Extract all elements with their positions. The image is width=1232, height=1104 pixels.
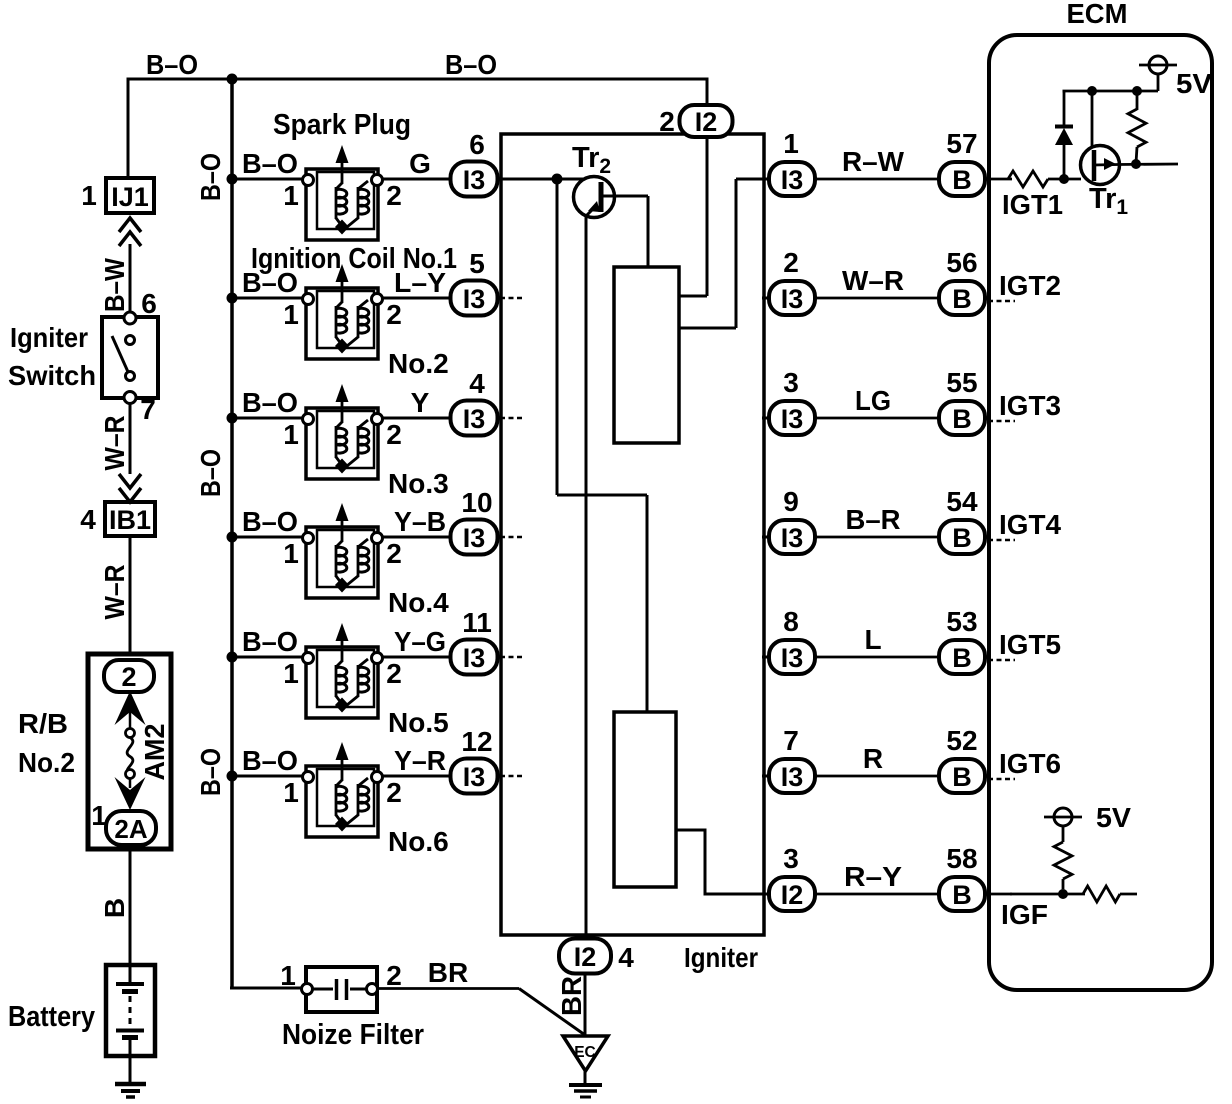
wire W&#8211;R to ECM <box>815 297 940 300</box>
wire R&#8211;Y to ECM <box>815 893 940 896</box>
wire 5V rail top <box>1063 91 1159 93</box>
svg-text:1: 1 <box>283 538 299 569</box>
svg-text:2: 2 <box>386 419 402 450</box>
wire stub igniter edge row IGT1 <box>762 178 772 181</box>
label W-R lower <box>99 565 130 620</box>
svg-text:I3: I3 <box>463 284 486 314</box>
wire block 2 to igniter pin 3 I2 <box>676 830 768 894</box>
label pin 2 coil 1 <box>386 180 402 211</box>
label B-O coil 5 <box>242 626 298 657</box>
connector I3 coil 5 <box>451 640 498 675</box>
label B-O bus lower <box>195 748 226 796</box>
label IGT1 <box>1002 189 1063 220</box>
junction bus top <box>227 74 238 85</box>
svg-text:I3: I3 <box>781 284 804 314</box>
svg-text:I3: I3 <box>463 643 486 673</box>
svg-text:6: 6 <box>141 288 157 319</box>
relay block R/B No.2 <box>88 654 171 849</box>
wire B-O bus to coil 4 <box>232 536 304 539</box>
svg-text:IB1: IB1 <box>109 505 151 535</box>
junction Tr1 base node <box>1059 174 1069 184</box>
svg-text:57: 57 <box>946 128 977 159</box>
svg-text:3: 3 <box>783 367 799 398</box>
label pin 1 coil 1 <box>283 180 299 211</box>
svg-text:2: 2 <box>659 106 675 137</box>
wire to igniter pin 2 <box>706 79 709 106</box>
wire igniter pin2 I2 to waveform block 1 <box>679 137 707 296</box>
wire B-O battery feed top horizontal <box>128 78 709 180</box>
label IGT2 <box>999 270 1061 301</box>
label wire color R <box>863 743 883 774</box>
svg-text:4: 4 <box>80 504 96 535</box>
wire Tr1 emitter output <box>1118 163 1178 166</box>
svg-text:11: 11 <box>462 607 492 638</box>
wire B-O bus to coil 2 <box>232 297 304 300</box>
wire R&#8211;W to ECM <box>815 178 940 181</box>
wire B&#8211;R to ECM <box>815 536 940 539</box>
wire L&#8211;Y coil 2 to I3 <box>383 297 452 300</box>
label B-O top middle <box>445 49 497 80</box>
svg-text:B–O: B–O <box>242 626 298 657</box>
junction resistor rail <box>1132 86 1142 96</box>
connector B row IGT3 <box>939 401 985 435</box>
dashed stub IGT6 <box>988 778 1015 781</box>
power 5V bottom <box>1044 808 1082 826</box>
label pin 10 of I3 coil 4 <box>461 487 492 518</box>
svg-text:W–R: W–R <box>99 416 130 471</box>
svg-text:4: 4 <box>469 368 485 399</box>
wire B-O main bus vertical <box>230 79 234 990</box>
svg-text:B–O: B–O <box>242 387 298 418</box>
label wire color LG <box>855 385 891 416</box>
label pin 2 coil 4 <box>386 538 402 569</box>
svg-text:55: 55 <box>946 367 977 398</box>
dashed stub IGT3 <box>988 420 1015 423</box>
fuse AM2 <box>115 691 146 810</box>
svg-text:2: 2 <box>386 538 402 569</box>
label Spark Plug <box>273 109 411 141</box>
connector I3 coil 4 <box>451 520 498 555</box>
svg-text:Battery: Battery <box>8 1001 95 1033</box>
label IGF <box>1001 899 1048 930</box>
label B-O coil 3 <box>242 387 298 418</box>
wire L to ECM <box>815 656 940 659</box>
svg-text:B: B <box>99 898 130 918</box>
junction IGF node <box>1058 889 1068 899</box>
connector IJ1 <box>106 178 154 213</box>
ignition coil No.3 <box>303 384 383 479</box>
label pin 1 coil 3 <box>283 419 299 450</box>
svg-text:54: 54 <box>946 486 978 517</box>
svg-text:1: 1 <box>283 299 299 330</box>
label wire color L <box>864 624 881 655</box>
label pin 4 of I2 bottom <box>618 942 634 973</box>
svg-text:5V: 5V <box>1096 802 1131 833</box>
connector B row IGT2 <box>939 281 985 315</box>
label wire color coil 5 <box>394 626 446 657</box>
svg-text:Y–R: Y–R <box>394 745 446 776</box>
label No.4 <box>388 587 449 618</box>
svg-text:B–W: B–W <box>99 258 130 312</box>
label pin 2 coil 6 <box>386 777 402 808</box>
svg-text:B–O: B–O <box>195 449 226 497</box>
power 5V top <box>1139 56 1177 91</box>
connector I3 coil 1 <box>451 162 498 197</box>
svg-text:I2: I2 <box>695 107 718 137</box>
label IGT6 <box>999 748 1061 779</box>
svg-text:IGT3: IGT3 <box>999 390 1061 421</box>
dashed stub I3 coil 3 <box>500 417 523 420</box>
ECM box <box>989 35 1212 990</box>
svg-text:Ignition Coil No.1: Ignition Coil No.1 <box>251 243 457 275</box>
junction Tr2 base node <box>552 174 563 185</box>
svg-text:10: 10 <box>461 487 492 518</box>
svg-text:W–R: W–R <box>99 565 130 620</box>
svg-text:Igniter: Igniter <box>10 322 88 353</box>
connector IB1 <box>105 502 155 536</box>
connector 2 of R/B <box>104 660 154 692</box>
label B-W <box>99 258 130 312</box>
label IGT4 <box>999 509 1061 540</box>
label B-O bus middle <box>195 449 226 497</box>
svg-text:B–O: B–O <box>146 49 198 80</box>
wire Y coil 3 to I3 <box>383 417 452 420</box>
label B-O coil 1 <box>242 148 298 179</box>
svg-text:52: 52 <box>946 725 977 756</box>
transistor Tr1 <box>1081 146 1120 185</box>
igniter switch <box>102 312 158 404</box>
connector I3 row IGT4 <box>769 520 815 554</box>
svg-text:I3: I3 <box>781 404 804 434</box>
label No.2 <box>388 348 449 379</box>
label pin 1 coil 4 <box>283 538 299 569</box>
resistor IGT1 series <box>1008 171 1048 187</box>
svg-text:1: 1 <box>283 180 299 211</box>
svg-text:Spark Plug: Spark Plug <box>273 109 411 141</box>
label pin 12 of I3 coil 6 <box>461 726 492 757</box>
svg-text:2A: 2A <box>114 814 147 844</box>
connector I2 row IGF <box>769 877 815 911</box>
wire G coil 1 to I3 <box>383 178 452 181</box>
label pin 2 of I3 row IGT2 <box>783 247 799 278</box>
label ECM <box>1067 0 1128 29</box>
wire stub igniter edge row IGT2 <box>762 297 772 300</box>
ignition coil No.1 <box>303 145 383 240</box>
svg-text:I3: I3 <box>463 404 486 434</box>
label pin 7 of I3 row IGT6 <box>783 725 799 756</box>
junction bus coil 5 <box>227 652 238 663</box>
label pin 8 of I3 row IGT5 <box>783 606 799 637</box>
label pin 2 noize filter <box>386 960 402 991</box>
svg-text:Y–G: Y–G <box>394 626 446 657</box>
label Battery <box>8 1001 95 1033</box>
connector I3 row IGT5 <box>769 640 815 674</box>
svg-text:B: B <box>952 880 972 910</box>
svg-text:No.5: No.5 <box>388 707 449 738</box>
label wire color R&#8211;Y <box>844 861 902 892</box>
svg-text:2: 2 <box>386 960 402 991</box>
dashed stub IGT4 <box>988 539 1015 542</box>
label pin 58 of B connector <box>946 843 977 874</box>
svg-text:58: 58 <box>946 843 977 874</box>
svg-text:G: G <box>409 148 431 179</box>
wire B-O bus to coil 6 <box>232 775 304 778</box>
svg-text:B: B <box>952 762 972 792</box>
label wire color coil 6 <box>394 745 446 776</box>
wire stub igniter edge row IGT6 <box>762 775 772 778</box>
svg-text:B–O: B–O <box>195 748 226 796</box>
label pin 53 of B connector <box>946 606 977 637</box>
resistor IGF pullup <box>1062 879 1065 889</box>
label pin 4 of IB1 <box>80 504 96 535</box>
svg-text:4: 4 <box>618 942 634 973</box>
svg-text:2: 2 <box>386 777 402 808</box>
svg-text:12: 12 <box>461 726 492 757</box>
connector I2 igniter bottom <box>559 939 611 974</box>
svg-text:3: 3 <box>783 843 799 874</box>
svg-text:LG: LG <box>855 385 891 416</box>
svg-text:2: 2 <box>783 247 799 278</box>
label B <box>99 898 130 918</box>
svg-text:1: 1 <box>283 419 299 450</box>
wire igniter pin1 I3 to waveform block 1 right <box>679 179 770 328</box>
wire B-W igniter switch to IJ1 <box>129 244 132 312</box>
svg-text:I3: I3 <box>781 762 804 792</box>
wire W-R IB1 to R/B No.2 <box>129 536 132 656</box>
junction bus coil 6 <box>227 771 238 782</box>
label pin 2 coil 3 <box>386 419 402 450</box>
label 5V bottom <box>1096 802 1131 833</box>
svg-text:I3: I3 <box>463 165 486 195</box>
label B-O coil 4 <box>242 506 298 537</box>
svg-text:IGF: IGF <box>1001 899 1048 930</box>
svg-text:IGT1: IGT1 <box>1002 189 1063 220</box>
svg-text:B–O: B–O <box>195 153 226 201</box>
label B-O top left <box>146 49 198 80</box>
label IGT5 <box>999 629 1061 660</box>
label wire color coil 2 <box>394 267 446 298</box>
wire B-O bus to noize filter <box>230 987 302 990</box>
connector B row IGF <box>939 877 985 911</box>
igniter box <box>501 134 764 935</box>
ground EC <box>563 1036 608 1097</box>
label Tr2 <box>572 142 611 178</box>
svg-text:2: 2 <box>386 658 402 689</box>
waveform block 2 <box>614 712 676 887</box>
label pin 6 of I3 coil 1 <box>469 129 485 160</box>
ignition coil No.4 <box>303 503 383 598</box>
label B-O coil 2 <box>242 267 298 298</box>
label pin 1 of I3 row IGT1 <box>783 128 799 159</box>
svg-text:Igniter: Igniter <box>684 942 758 973</box>
label No.3 <box>388 468 449 499</box>
svg-text:5V: 5V <box>1176 68 1212 99</box>
dashed stub I3 coil 4 <box>500 536 523 539</box>
wire Tr2 emitter to igniter pin 4 <box>585 214 588 938</box>
svg-text:B–R: B–R <box>846 504 901 535</box>
wire Tr2 collector to block 1 <box>647 196 650 268</box>
label pin 2 of I2 top <box>659 106 675 137</box>
svg-text:1: 1 <box>283 658 299 689</box>
label Ignition Coil No.1 <box>251 243 457 275</box>
connector I3 coil 3 <box>451 401 498 436</box>
wire Y&#8211;R coil 6 to I3 <box>383 775 452 778</box>
svg-text:B–O: B–O <box>242 745 298 776</box>
svg-text:IGT2: IGT2 <box>999 270 1061 301</box>
svg-text:1: 1 <box>283 777 299 808</box>
label pin 52 of B connector <box>946 725 977 756</box>
svg-text:IGT5: IGT5 <box>999 629 1061 660</box>
wire B-O bus to coil 3 <box>232 417 304 420</box>
svg-text:I3: I3 <box>463 762 486 792</box>
svg-text:7: 7 <box>783 725 799 756</box>
svg-text:R/B: R/B <box>18 708 68 739</box>
svg-text:No.4: No.4 <box>388 587 449 618</box>
connector B row IGT1 <box>939 162 985 196</box>
dashed stub I3 coil 6 <box>500 775 523 778</box>
label wire color coil 4 <box>394 506 446 537</box>
svg-text:Noize Filter: Noize Filter <box>282 1019 424 1051</box>
svg-text:BR: BR <box>428 957 468 988</box>
junction Tr1 collector rail <box>1087 86 1097 96</box>
svg-text:ECM: ECM <box>1067 0 1128 29</box>
svg-text:5: 5 <box>469 248 485 279</box>
svg-text:Y–B: Y–B <box>394 506 446 537</box>
resistor IGF series <box>1083 886 1120 902</box>
label IGT3 <box>999 390 1061 421</box>
label W-R upper <box>99 416 130 471</box>
label pin 57 of B connector <box>946 128 977 159</box>
label B-O coil 6 <box>242 745 298 776</box>
svg-text:1: 1 <box>280 960 296 991</box>
label wire color coil 3 <box>411 387 430 418</box>
label pin 2 coil 5 <box>386 658 402 689</box>
svg-text:56: 56 <box>946 247 977 278</box>
junction bus coil 4 <box>227 532 238 543</box>
wire base node down to block 2 <box>557 184 647 712</box>
svg-text:B–O: B–O <box>445 49 497 80</box>
wire igniter pin 4 to ground <box>584 938 587 1037</box>
label pin 3 of I2 row IGF <box>783 843 799 874</box>
connector I3 row IGT2 <box>769 281 815 315</box>
wire stub igniter edge row IGT4 <box>762 536 772 539</box>
dashed stub I3 coil 2 <box>500 297 523 300</box>
svg-text:No.2: No.2 <box>388 348 449 379</box>
dashed stub I3 coil 5 <box>500 656 523 659</box>
svg-text:53: 53 <box>946 606 977 637</box>
svg-text:1: 1 <box>81 180 97 211</box>
label wire color R&#8211;W <box>842 146 905 177</box>
dashed stub IGT2 <box>988 300 1015 303</box>
svg-text:AM2: AM2 <box>139 724 170 781</box>
wire R to ECM <box>815 775 940 778</box>
label No.5 <box>388 707 449 738</box>
label pin 56 of B connector <box>946 247 977 278</box>
wire IGF into ECM <box>984 893 1012 896</box>
svg-text:9: 9 <box>783 486 799 517</box>
arrow chevrons up to IJ1 <box>119 218 141 246</box>
wire stub igniter edge row IGT5 <box>762 656 772 659</box>
wire W-R igniter switch to IB1 <box>129 403 132 474</box>
svg-text:Y: Y <box>411 387 430 418</box>
svg-text:B: B <box>952 643 972 673</box>
svg-text:I2: I2 <box>574 942 597 972</box>
svg-text:2: 2 <box>121 662 136 692</box>
label pin 1 of IJ1 <box>81 180 97 211</box>
svg-text:IGT6: IGT6 <box>999 748 1061 779</box>
label pin 1 coil 5 <box>283 658 299 689</box>
label No.6 <box>388 826 449 857</box>
label pin 6 of igniter switch <box>141 288 157 319</box>
label pin 4 of I3 coil 3 <box>469 368 485 399</box>
dashed stub IGT5 <box>988 659 1015 662</box>
label pin 9 of I3 row IGT4 <box>783 486 799 517</box>
svg-text:B: B <box>952 523 972 553</box>
svg-text:No.6: No.6 <box>388 826 449 857</box>
connector I2 igniter top <box>680 105 733 137</box>
wire stub igniter edge row IGF <box>762 893 772 896</box>
svg-text:I3: I3 <box>781 523 804 553</box>
svg-text:No.3: No.3 <box>388 468 449 499</box>
svg-text:R–W: R–W <box>842 146 905 177</box>
label pin 11 of I3 coil 5 <box>462 607 492 638</box>
wire IGT1 to Tr1 base <box>1048 178 1081 181</box>
junction bus coil 1 <box>227 174 238 185</box>
arrow chevrons down to IB1 <box>119 474 141 502</box>
wire G into igniter <box>497 178 585 181</box>
label pin 54 of B connector <box>946 486 978 517</box>
ignition coil No.6 <box>303 742 383 837</box>
label pin 1 noize filter <box>280 960 296 991</box>
ignition coil No.2 <box>303 264 383 359</box>
svg-text:W–R: W–R <box>842 265 904 296</box>
wire IGT1 into ECM <box>984 178 1012 181</box>
ignition coil No.5 <box>303 623 383 718</box>
connector I3 coil 2 <box>451 281 498 316</box>
junction bus coil 2 <box>227 293 238 304</box>
label BR horizontal <box>428 957 468 988</box>
svg-text:7: 7 <box>140 394 156 425</box>
svg-text:2: 2 <box>386 299 402 330</box>
label 5V top <box>1176 68 1212 99</box>
svg-text:B: B <box>952 404 972 434</box>
ground battery <box>115 1084 146 1097</box>
waveform block 1 <box>614 267 679 443</box>
label R/B No.2 <box>18 708 75 778</box>
wire B-O bus to coil 1 <box>232 178 304 181</box>
connector I3 coil 6 <box>451 759 498 794</box>
wire Y&#8211;G coil 5 to I3 <box>383 656 452 659</box>
svg-text:I2: I2 <box>781 880 804 910</box>
svg-text:I3: I3 <box>781 643 804 673</box>
label pin 1 coil 2 <box>283 299 299 330</box>
svg-text:B–O: B–O <box>242 506 298 537</box>
svg-text:IGT4: IGT4 <box>999 509 1061 540</box>
wire LG to ECM <box>815 417 940 420</box>
connector I3 row IGT1 <box>769 162 815 196</box>
svg-text:EC: EC <box>574 1044 596 1061</box>
svg-text:R–Y: R–Y <box>844 861 902 892</box>
wire Y&#8211;B coil 4 to I3 <box>383 536 452 539</box>
label Igniter <box>684 942 758 973</box>
svg-text:R: R <box>863 743 883 774</box>
svg-text:2: 2 <box>386 180 402 211</box>
label pin 2 coil 2 <box>386 299 402 330</box>
svg-text:BR: BR <box>556 976 587 1016</box>
label pin 55 of B connector <box>946 367 977 398</box>
svg-text:I3: I3 <box>463 523 486 553</box>
label pin 1 of R/B <box>91 800 107 831</box>
